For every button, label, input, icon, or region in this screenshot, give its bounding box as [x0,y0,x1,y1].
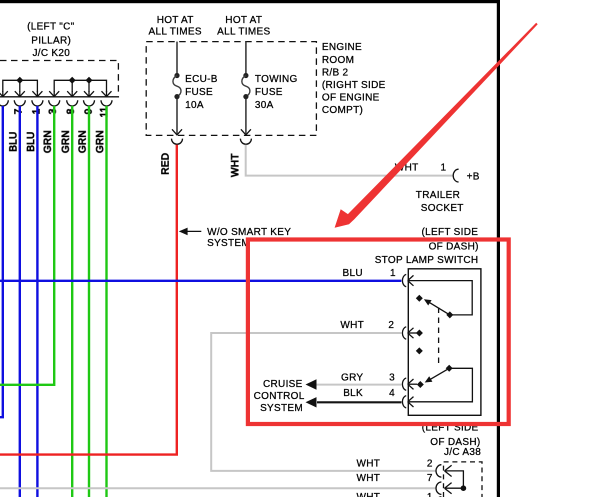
svg-text:ENGINE: ENGINE [322,42,362,53]
wire BLU pin? (left edge, exits left) [0,106,3,417]
top page border [0,0,500,3]
A38 internal pin7 line [445,487,465,489]
svg-text:RED: RED [161,153,172,175]
A38 pin2 arrow [445,465,452,476]
junction diamond pin8 [69,77,76,84]
svg-text:CRUISE: CRUISE [263,379,303,390]
lever upper [429,302,450,315]
A38 pin7 arrow [445,483,452,494]
bus bar left (pins 7,1 + edge wire) [3,80,38,92]
switch pin 3 cup [402,378,406,390]
switch pin 4 arrow [408,397,414,407]
W/O SMART KEY arrow [183,230,201,232]
wire colour labels [8,130,106,153]
svg-text:ROOM: ROOM [322,55,354,66]
trailer socket cup +B [453,169,458,182]
svg-text:10A: 10A [185,100,204,111]
svg-text:J/C A38: J/C A38 [444,447,481,458]
cruise arrow GRY [306,379,317,389]
svg-text:WHT: WHT [357,458,381,469]
engine room R/B dashed box [146,42,316,136]
fuse TOWING symbol [243,73,248,78]
svg-text:HOT AT: HOT AT [225,15,262,26]
svg-text:GRN: GRN [43,130,54,153]
svg-text:(RIGHT SIDE: (RIGHT SIDE [322,80,386,91]
wire RED from ECU-B fuse, exits left [0,145,177,455]
fuse ECU-B feed wire [176,42,178,74]
switch pin2 stub [408,332,417,334]
junction diamond pin7 [16,77,23,84]
wire GRN pin8 [71,106,73,497]
switch internal pin4 to pivot [408,368,473,402]
svg-text:HOT AT: HOT AT [157,15,194,26]
A38 pin1 cup (partial) [436,497,441,502]
fuse TOWING cup [240,139,251,145]
wire WHT stop lamp pin2 to J/C A38 pin2 [211,333,436,471]
svg-text:COMPT): COMPT) [322,105,363,116]
fuse TOWING pin arrow [241,129,251,135]
A38 junction dot [461,485,467,491]
label ECU-B FUSE 10A [185,74,218,111]
wire BLU pin1 [36,106,38,497]
wire BLU horizontal to stop lamp switch pin1 [0,280,401,282]
red annotation arrow [335,23,538,228]
svg-text:GRN: GRN [61,130,72,153]
svg-text:1: 1 [441,163,447,174]
contact diamond upper [416,295,423,302]
switch pin 3 arrow [408,379,414,389]
svg-text:J/C K20: J/C K20 [32,48,70,59]
svg-text:FUSE: FUSE [255,87,283,98]
svg-text:R/B 2: R/B 2 [322,67,349,78]
svg-text:4: 4 [389,388,395,399]
svg-text:WHT: WHT [357,473,381,484]
wire BLK to cruise control [317,401,402,403]
label ENGINE ROOM R/B 2 [322,42,386,116]
red highlight box [248,240,509,425]
svg-text:TOWING: TOWING [255,74,298,85]
K20 pin cups [0,100,112,106]
fuse ECU-B cup [172,139,183,145]
svg-text:GRY: GRY [341,373,363,384]
junction diamond pin9 [86,77,93,84]
svg-text:ALL TIMES: ALL TIMES [149,26,202,37]
svg-text:BLK: BLK [343,388,363,399]
wire GRN pin11 [105,106,107,497]
wire WHT from left edge to J/C A38 pin7 [0,487,436,489]
svg-text:30A: 30A [255,100,274,111]
switch pin 2 cup [402,327,406,339]
J/C K20 title [27,21,75,59]
switch pin 1 cup [402,274,406,286]
A38 pin7 cup [436,482,441,494]
svg-text:WHT: WHT [340,320,364,331]
switch internal pin1 to pivot [408,281,473,315]
K20 pin numbers [14,106,111,117]
wire GRN pin3 (turns left) [0,106,54,385]
J/C K20 dashed connector box [0,61,118,97]
svg-text:2: 2 [427,458,433,469]
right page border [497,0,500,497]
linkage dashed [438,308,440,366]
contact diamond pin2 [416,330,423,337]
svg-text:BLU: BLU [8,131,19,151]
floating diamond [416,347,423,354]
svg-text:OF ENGINE: OF ENGINE [322,93,380,104]
switch pin 1 arrow [408,275,414,285]
svg-text:WHT: WHT [230,153,241,177]
svg-text:BLU: BLU [343,268,363,279]
svg-text:2: 2 [388,320,394,331]
svg-text:11: 11 [99,106,110,117]
svg-text:1: 1 [390,268,396,279]
label CRUISE CONTROL SYSTEM [254,379,305,414]
lever lower [430,368,450,380]
svg-text:SOCKET: SOCKET [421,203,464,214]
wire BLU pin7 [19,106,21,497]
svg-text:SYSTEM: SYSTEM [260,403,303,414]
svg-text:PILLAR): PILLAR) [31,35,71,46]
contact diamond pin3 [417,381,424,388]
svg-text:ALL TIMES: ALL TIMES [217,26,270,37]
cruise arrow BLK [306,397,317,407]
fuse ECU-B symbol [174,73,179,78]
svg-text:TRAILER: TRAILER [416,190,460,201]
fuse ECU-B pin arrow [172,129,182,135]
wire GRN pin9 [88,106,90,497]
svg-text:CONTROL: CONTROL [254,391,305,402]
svg-text:1: 1 [427,492,433,497]
bus bar right (pins 3,8,9,11) [54,80,106,92]
A38 pin2 cup [436,465,441,477]
pivot dot lower [446,365,453,372]
svg-text:7: 7 [427,473,433,484]
HOT AT labels [149,15,271,38]
svg-text:W/O SMART KEY: W/O SMART KEY [207,227,291,238]
svg-text:BLU: BLU [26,131,37,151]
svg-text:OF DASH): OF DASH) [429,242,479,253]
stop lamp switch body [408,269,481,416]
fuse TOWING feed wire [245,42,247,74]
label TOWING FUSE 30A [255,74,298,111]
svg-text:GRN: GRN [78,130,89,153]
svg-text:WHT: WHT [357,492,381,497]
K20 pin arrows [0,91,111,97]
wire GRY to cruise control [316,384,402,386]
switch pin 4 cup [402,396,406,408]
A38 pin1 arrow (partial) [445,497,452,502]
svg-text:SYSTEM: SYSTEM [207,238,250,249]
svg-text:STOP LAMP SWITCH: STOP LAMP SWITCH [375,255,479,266]
A38 internal pin2 to junction [445,471,464,488]
svg-text:ECU-B: ECU-B [185,74,218,85]
svg-text:(LEFT "C": (LEFT "C" [27,21,75,32]
pivot dot upper [446,311,453,318]
switch pin 2 arrow [408,328,414,338]
wire WHT from TOWING fuse to trailer socket [246,145,453,176]
svg-text:3: 3 [389,373,395,384]
svg-text:+B: +B [467,171,480,182]
switch pin3 stub [408,383,417,385]
svg-text:GRN: GRN [95,130,106,153]
svg-text:(LEFT SIDE: (LEFT SIDE [422,227,479,238]
J/C A38 dashed box [444,462,483,497]
svg-text:FUSE: FUSE [185,87,213,98]
